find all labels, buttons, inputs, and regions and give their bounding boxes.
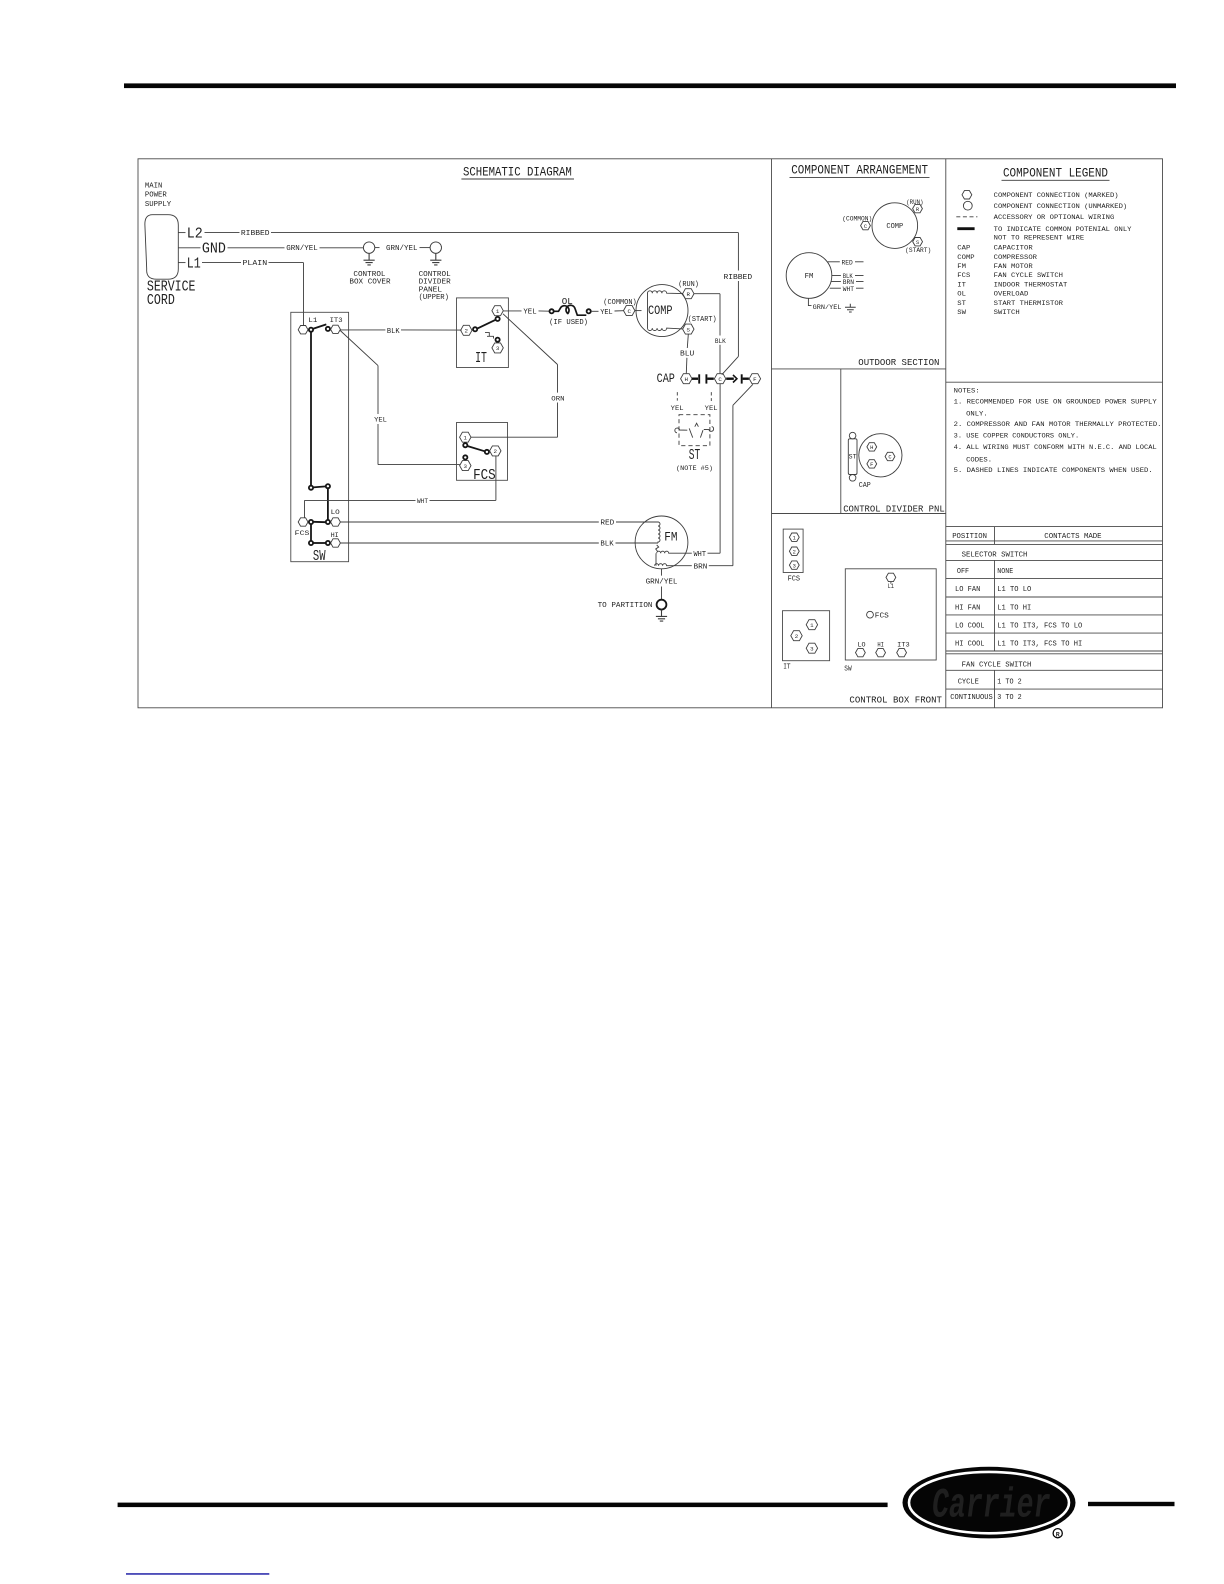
switch blade FCS bbox=[467, 446, 485, 451]
wire GND GRN/YEL bbox=[178, 245, 430, 253]
svg-text:RIBBED: RIBBED bbox=[724, 274, 753, 282]
svg-text:OVERLOAD: OVERLOAD bbox=[994, 290, 1029, 298]
wire ORN diagonal bbox=[503, 314, 565, 437]
svg-text:COMPONENT CONNECTION (MARKED): COMPONENT CONNECTION (MARKED) bbox=[994, 192, 1119, 200]
capacitor CAP (arr) bbox=[859, 434, 902, 477]
compressor COMP circle bbox=[636, 285, 688, 337]
contact FCS row bbox=[309, 520, 313, 524]
label CONTROL BOX COVER bbox=[349, 271, 391, 287]
svg-text:3 TO 2: 3 TO 2 bbox=[997, 694, 1021, 702]
thermostat actuator symbol bbox=[485, 333, 494, 339]
svg-text:ST: ST bbox=[957, 300, 966, 308]
svg-text:FM: FM bbox=[957, 263, 966, 271]
lead BLK (arr) bbox=[832, 273, 864, 281]
svg-text:CONTINUOUS: CONTINUOUS bbox=[950, 694, 993, 702]
wire OL to C (YEL) bbox=[591, 309, 623, 317]
fan motor FM circle bbox=[635, 516, 688, 569]
wire mid bus down bbox=[327, 488, 329, 520]
switch blade FCS-LO bbox=[313, 521, 326, 523]
svg-text:2: 2 bbox=[465, 328, 469, 335]
svg-text:TO INDICATE COMMON POTENIAL ON: TO INDICATE COMMON POTENIAL ONLY bbox=[994, 226, 1132, 234]
legend hexagon symbol bbox=[962, 191, 972, 199]
svg-text:L1: L1 bbox=[308, 317, 317, 325]
svg-text:YEL: YEL bbox=[600, 309, 613, 317]
wire RIBBED down bbox=[722, 233, 753, 375]
svg-text:COMP: COMP bbox=[648, 303, 673, 318]
svg-text:OFF: OFF bbox=[957, 568, 969, 576]
svg-text:3: 3 bbox=[810, 646, 814, 653]
panel divider arrangement/legend bbox=[945, 159, 947, 708]
svg-text:L1 TO IT3, FCS TO LO: L1 TO IT3, FCS TO LO bbox=[997, 623, 1083, 631]
svg-text:CAP: CAP bbox=[859, 482, 871, 490]
svg-text:NOT TO REPRESENT WIRE: NOT TO REPRESENT WIRE bbox=[994, 235, 1084, 243]
title COMPONENT ARRANGEMENT bbox=[790, 162, 930, 177]
svg-text:2: 2 bbox=[494, 448, 498, 455]
svg-text:INDOOR THERMOSTAT: INDOOR THERMOSTAT bbox=[994, 281, 1068, 289]
wire S to H (BLU) bbox=[680, 334, 694, 373]
wire BRN to FM bbox=[668, 563, 733, 571]
divider control divider pnl vertical bbox=[840, 369, 842, 514]
switch blade mid bbox=[313, 486, 326, 487]
svg-text:GRN/YEL: GRN/YEL bbox=[813, 304, 842, 312]
outer schematic frame bbox=[138, 159, 1163, 708]
svg-text:LO COOL: LO COOL bbox=[955, 623, 985, 631]
compressor COMP (arrangement) bbox=[872, 203, 918, 249]
svg-text:GND: GND bbox=[202, 241, 226, 258]
svg-text:HI FAN: HI FAN bbox=[955, 604, 980, 612]
svg-text:L1 TO IT3, FCS TO HI: L1 TO IT3, FCS TO HI bbox=[997, 641, 1082, 649]
legend FM bbox=[957, 263, 1032, 271]
label SERVICE CORD bbox=[147, 279, 196, 309]
svg-text:GRN/YEL: GRN/YEL bbox=[646, 579, 678, 587]
svg-text:BLK: BLK bbox=[715, 338, 727, 346]
wire R to cap C (BLK) bbox=[694, 294, 727, 374]
svg-text:1: 1 bbox=[810, 622, 814, 629]
legend dashed symbol bbox=[956, 216, 977, 218]
svg-text:POSITION: POSITION bbox=[952, 533, 987, 541]
terminal 2 hex (IT) bbox=[461, 325, 472, 335]
lead WHT (arr) bbox=[830, 286, 864, 294]
svg-text:MAIN: MAIN bbox=[145, 183, 163, 191]
svg-text:CYCLE: CYCLE bbox=[958, 679, 979, 687]
svg-text:1: 1 bbox=[464, 435, 468, 442]
selector switch SW box bbox=[291, 312, 349, 561]
lead GRN/YEL (arr) bbox=[808, 298, 855, 312]
contact FCS 3 bbox=[463, 455, 467, 459]
table header POSITION / CONTACTS MADE bbox=[952, 533, 1101, 541]
wire L1 PLAIN bbox=[178, 260, 303, 325]
contact mid right bbox=[326, 484, 330, 488]
top rule bar bbox=[124, 83, 1176, 88]
svg-text:COMPONENT ARRANGEMENT: COMPONENT ARRANGEMENT bbox=[791, 162, 928, 177]
svg-text:IT3: IT3 bbox=[330, 317, 343, 325]
svg-text:COMP: COMP bbox=[886, 223, 903, 231]
svg-text:S: S bbox=[916, 240, 919, 246]
svg-text:WHT: WHT bbox=[417, 498, 428, 506]
svg-text:LO: LO bbox=[331, 509, 340, 517]
svg-text:1: 1 bbox=[793, 535, 796, 541]
svg-text:CONTROL BOX FRONT: CONTROL BOX FRONT bbox=[849, 694, 942, 705]
svg-text:WHT: WHT bbox=[694, 551, 707, 559]
legend thick bar symbol bbox=[957, 227, 974, 230]
terminal LO hex bbox=[331, 518, 341, 526]
terminal HI hex bbox=[331, 539, 341, 547]
panel divider schematic/arrangement bbox=[771, 159, 773, 708]
svg-text:WHT: WHT bbox=[843, 286, 854, 294]
svg-text:F: F bbox=[870, 462, 873, 468]
service cord plug bbox=[145, 215, 178, 280]
row CONTINUOUS / 3 TO 2 bbox=[950, 694, 1021, 702]
svg-text:H: H bbox=[685, 376, 689, 383]
terminal 1 hex (IT) bbox=[492, 306, 503, 316]
svg-text:HI COOL: HI COOL bbox=[955, 641, 985, 649]
indoor thermostat IT box bbox=[457, 298, 509, 368]
svg-text:C: C bbox=[627, 308, 631, 315]
svg-text:YEL: YEL bbox=[705, 405, 718, 413]
svg-text:FM: FM bbox=[664, 530, 677, 545]
svg-text:CORD: CORD bbox=[147, 293, 175, 309]
start thermistor ST dashed bbox=[671, 392, 718, 446]
svg-text:1: 1 bbox=[496, 308, 500, 315]
wire BLK to FM bbox=[340, 541, 658, 549]
svg-text:RED: RED bbox=[842, 259, 853, 267]
contact IT 3 bbox=[496, 338, 500, 342]
fan motor FM (arrangement) bbox=[786, 253, 832, 299]
svg-text:FM: FM bbox=[805, 273, 814, 281]
terminal C hex (arr) bbox=[861, 221, 871, 229]
fan motor windings bbox=[655, 522, 670, 566]
svg-text:R: R bbox=[1056, 1531, 1060, 1538]
legend circle symbol bbox=[963, 201, 972, 210]
svg-text:NOTES:: NOTES: bbox=[954, 387, 980, 395]
svg-text:POWER: POWER bbox=[145, 192, 168, 200]
svg-text:PLAIN: PLAIN bbox=[243, 260, 268, 268]
svg-text:FCS: FCS bbox=[788, 575, 801, 583]
compressor windings bbox=[635, 291, 683, 331]
svg-text:FCS: FCS bbox=[957, 272, 970, 280]
svg-text:ST: ST bbox=[849, 453, 857, 460]
svg-text:BLK: BLK bbox=[387, 328, 400, 336]
notes divider bbox=[946, 381, 1163, 383]
svg-text:RIBBED: RIBBED bbox=[241, 230, 270, 238]
wire IT1 to OL (YEL) bbox=[503, 309, 549, 317]
svg-text:H: H bbox=[870, 445, 873, 451]
svg-text:3. USE COPPER CONDUCTORS ONLY.: 3. USE COPPER CONDUCTORS ONLY. bbox=[954, 433, 1080, 441]
row LO COOL bbox=[955, 623, 1083, 631]
svg-text:ST: ST bbox=[689, 448, 701, 464]
svg-text:GRN/YEL: GRN/YEL bbox=[386, 245, 418, 253]
title SCHEMATIC DIAGRAM bbox=[461, 165, 574, 180]
legend FCS bbox=[957, 272, 1063, 280]
svg-text:1. RECOMMENDED FOR USE ON GROU: 1. RECOMMENDED FOR USE ON GROUNDED POWER… bbox=[954, 398, 1157, 406]
svg-text:BLU: BLU bbox=[680, 351, 694, 359]
note 4 bbox=[954, 444, 1157, 464]
svg-text:RED: RED bbox=[600, 520, 615, 528]
svg-text:L1: L1 bbox=[888, 583, 894, 591]
contact HI right bbox=[326, 541, 330, 545]
start thermistor ST (arr) bbox=[848, 432, 857, 481]
svg-text:2. COMPRESSOR AND FAN MOTOR TH: 2. COMPRESSOR AND FAN MOTOR THERMALLY PR… bbox=[954, 421, 1162, 429]
svg-text:L1: L1 bbox=[187, 255, 201, 272]
legend IT bbox=[957, 281, 1067, 289]
svg-text:FCS: FCS bbox=[295, 530, 310, 538]
terminal FCS hex (SW) bbox=[298, 518, 308, 526]
ground control box cover bbox=[363, 242, 374, 265]
svg-text:BLK: BLK bbox=[600, 541, 614, 549]
terminal 3 hex (FCS) bbox=[460, 461, 471, 471]
row LO FAN / L1 TO LO bbox=[955, 586, 1032, 594]
svg-text:1 TO 2: 1 TO 2 bbox=[997, 679, 1021, 687]
terminal L1 hex bbox=[298, 326, 308, 334]
contact IT 1 bbox=[496, 317, 500, 321]
svg-text:F: F bbox=[753, 376, 757, 383]
switch blade IT bbox=[477, 320, 496, 329]
wire cap C down to WHT bbox=[719, 384, 721, 553]
svg-text:C: C bbox=[888, 455, 891, 461]
svg-text:YEL: YEL bbox=[671, 405, 684, 413]
terminal S hex (arr) bbox=[913, 238, 923, 246]
svg-text:CAP: CAP bbox=[957, 244, 970, 252]
svg-text:SW: SW bbox=[313, 549, 326, 565]
terminal R hex (arr) bbox=[913, 204, 923, 212]
svg-text:L1 TO LO: L1 TO LO bbox=[997, 586, 1032, 594]
legend COMP bbox=[957, 254, 1037, 262]
switch blade L1-IT3 (open) bbox=[313, 324, 327, 329]
terminal 2 hex (FCS) bbox=[490, 446, 501, 456]
svg-text:(UPPER): (UPPER) bbox=[419, 294, 449, 302]
svg-text:CAPACITOR: CAPACITOR bbox=[994, 244, 1033, 252]
svg-text:5. DASHED LINES INDICATE COMPO: 5. DASHED LINES INDICATE COMPONENTS WHEN… bbox=[954, 467, 1153, 475]
svg-text:OUTDOOR SECTION: OUTDOOR SECTION bbox=[858, 357, 939, 368]
wire GRN/YEL to partition bbox=[646, 569, 678, 600]
svg-text:ONLY.: ONLY. bbox=[966, 410, 988, 418]
terminal 3 hex (IT) bbox=[492, 343, 503, 353]
svg-text:IT: IT bbox=[475, 351, 487, 367]
svg-text:COMP: COMP bbox=[957, 254, 974, 262]
svg-text:SUPPLY: SUPPLY bbox=[145, 201, 172, 209]
svg-text:FAN CYCLE SWITCH: FAN CYCLE SWITCH bbox=[994, 272, 1063, 280]
svg-text:SWITCH: SWITCH bbox=[994, 309, 1020, 317]
wire WHT bbox=[305, 456, 496, 518]
Carrier logo bbox=[903, 1467, 1076, 1539]
svg-text:SCHEMATIC DIAGRAM: SCHEMATIC DIAGRAM bbox=[463, 165, 572, 180]
terminal IT3 hex bbox=[331, 325, 341, 333]
switch blade HI bbox=[313, 542, 326, 544]
ground control divider panel bbox=[430, 242, 441, 265]
footer rule left bbox=[118, 1503, 888, 1508]
svg-text:SELECTOR SWITCH: SELECTOR SWITCH bbox=[962, 552, 1028, 560]
label MAIN POWER SUPPLY bbox=[145, 183, 172, 209]
footer blue underline bbox=[126, 1573, 269, 1575]
legend text common potential bbox=[994, 226, 1132, 243]
row CYCLE / 1 TO 2 bbox=[958, 679, 1022, 687]
partition ground lug bbox=[656, 600, 667, 621]
svg-text:FCS: FCS bbox=[875, 612, 890, 620]
svg-text:COMPRESSOR: COMPRESSOR bbox=[994, 254, 1037, 262]
svg-text:2: 2 bbox=[793, 549, 796, 555]
contact at L1 bbox=[309, 328, 313, 332]
FCS terminal strip (front) bbox=[783, 529, 803, 572]
title COMPONENT LEGEND bbox=[1002, 166, 1110, 181]
row HI COOL bbox=[955, 641, 1082, 649]
svg-text:(NOTE #5): (NOTE #5) bbox=[676, 465, 713, 473]
svg-text:ORN: ORN bbox=[551, 395, 564, 403]
contact IT 2 bbox=[473, 327, 477, 331]
note 1 bbox=[954, 398, 1157, 418]
svg-text:L1 TO HI: L1 TO HI bbox=[997, 604, 1031, 612]
svg-text:L2: L2 bbox=[187, 225, 203, 242]
svg-text:NONE: NONE bbox=[997, 568, 1013, 576]
legend SW bbox=[957, 309, 1019, 317]
svg-text:3: 3 bbox=[496, 345, 500, 352]
svg-text:FAN MOTOR: FAN MOTOR bbox=[994, 263, 1033, 271]
legend ST bbox=[957, 300, 1063, 308]
svg-text:ACCESSORY OR OPTIONAL WIRING: ACCESSORY OR OPTIONAL WIRING bbox=[994, 214, 1115, 222]
lead RED (arr) bbox=[828, 259, 864, 267]
legend OL bbox=[957, 290, 1028, 298]
svg-text:2: 2 bbox=[795, 633, 799, 640]
contacts table grid bbox=[946, 527, 1163, 708]
label CONTROL DIVIDER PANEL (UPPER) bbox=[419, 271, 452, 302]
svg-text:S: S bbox=[687, 326, 691, 333]
footer rule right bbox=[1088, 1502, 1175, 1506]
contact mid left bbox=[309, 486, 313, 490]
row HI FAN / L1 TO HI bbox=[955, 604, 1031, 612]
svg-text:3: 3 bbox=[464, 463, 468, 470]
svg-text:YEL: YEL bbox=[523, 309, 536, 317]
svg-text:(RUN): (RUN) bbox=[678, 281, 699, 289]
svg-text:FCS: FCS bbox=[473, 468, 496, 484]
capacitor CAP assembly bbox=[657, 371, 761, 386]
svg-text:C: C bbox=[718, 376, 722, 383]
svg-text:BRN: BRN bbox=[694, 563, 708, 571]
svg-text:GRN/YEL: GRN/YEL bbox=[286, 245, 318, 253]
divider control box front bbox=[772, 513, 946, 515]
svg-text:TO PARTITION: TO PARTITION bbox=[598, 602, 653, 610]
svg-text:SW: SW bbox=[957, 309, 967, 317]
wire FCS1 to ORN bbox=[471, 436, 558, 438]
svg-text:IT: IT bbox=[957, 281, 966, 289]
svg-text:(START): (START) bbox=[688, 316, 717, 324]
contact FCS 2 bbox=[485, 450, 489, 454]
svg-text:COMPONENT LEGEND: COMPONENT LEGEND bbox=[1003, 166, 1108, 181]
svg-text:Carrier: Carrier bbox=[932, 1482, 1051, 1530]
wire WHT to FM bbox=[670, 551, 720, 559]
svg-text:C: C bbox=[864, 224, 867, 230]
terminal R hex (COMP) bbox=[683, 289, 694, 299]
svg-text:COMPONENT CONNECTION (UNMARKED: COMPONENT CONNECTION (UNMARKED) bbox=[994, 203, 1127, 211]
svg-text:FAN CYCLE SWITCH: FAN CYCLE SWITCH bbox=[962, 661, 1032, 669]
svg-text:SW: SW bbox=[844, 666, 852, 674]
svg-text:OL: OL bbox=[957, 290, 966, 298]
terminal S hex (COMP) bbox=[683, 324, 694, 334]
contact FCS 1 bbox=[463, 443, 467, 447]
svg-text:(START): (START) bbox=[905, 247, 931, 255]
svg-text:BOX COVER: BOX COVER bbox=[349, 279, 391, 287]
svg-text:YEL: YEL bbox=[374, 416, 387, 424]
wire YEL IT3 to FCS3 bbox=[340, 331, 460, 465]
terminal C hex (COMP) bbox=[624, 306, 635, 316]
divider outdoor section bbox=[772, 368, 946, 370]
wire RED bbox=[340, 520, 658, 528]
svg-text:3: 3 bbox=[793, 563, 796, 569]
contact HI left bbox=[309, 541, 313, 545]
svg-text:4. ALL WIRING MUST CONFORM WIT: 4. ALL WIRING MUST CONFORM WITH N.E.C. A… bbox=[954, 444, 1157, 452]
svg-text:START THERMISTOR: START THERMISTOR bbox=[994, 300, 1063, 308]
svg-text:CAP: CAP bbox=[657, 371, 675, 386]
svg-text:CODES.: CODES. bbox=[966, 456, 992, 464]
row OFF / NONE bbox=[957, 568, 1013, 576]
svg-text:IT: IT bbox=[783, 664, 791, 672]
svg-text:(COMMON): (COMMON) bbox=[842, 215, 872, 223]
svg-text:(IF USED): (IF USED) bbox=[549, 319, 588, 327]
fan cycle switch FCS box bbox=[457, 423, 508, 481]
SW panel (front) bbox=[845, 569, 936, 660]
contact at IT3 bbox=[326, 327, 330, 331]
lead BRN (arr) bbox=[831, 279, 863, 287]
svg-text:CONTACTS MADE: CONTACTS MADE bbox=[1044, 533, 1101, 541]
svg-text:LO FAN: LO FAN bbox=[955, 586, 980, 594]
wire BLK IT3 to IT bbox=[340, 328, 461, 336]
overload OL bbox=[549, 296, 591, 327]
wire L1 bus down bbox=[310, 332, 312, 486]
legend CAP bbox=[957, 244, 1032, 252]
IT terminal block (front) bbox=[783, 611, 830, 661]
wire cap F to BRN bbox=[733, 384, 753, 565]
contact LO row bbox=[326, 520, 330, 524]
terminal 1 hex (FCS) bbox=[460, 432, 471, 442]
wire FCS bus down bbox=[310, 524, 312, 541]
wire L2 RIBBED bbox=[178, 230, 738, 238]
svg-text:R: R bbox=[687, 291, 691, 298]
